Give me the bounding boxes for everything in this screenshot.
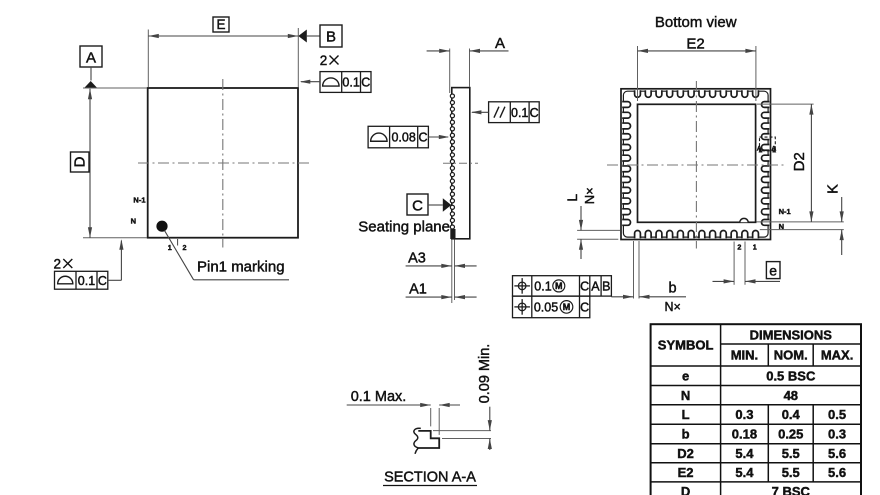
svg-text:C: C bbox=[361, 76, 370, 90]
svg-text:0.3: 0.3 bbox=[735, 407, 753, 422]
svg-text:A: A bbox=[495, 35, 505, 52]
svg-text:C: C bbox=[530, 106, 539, 120]
svg-text:N: N bbox=[681, 388, 690, 403]
svg-text:7 BSC: 7 BSC bbox=[772, 484, 811, 495]
svg-text:Seating plane: Seating plane bbox=[358, 219, 450, 236]
svg-text:0.08: 0.08 bbox=[391, 131, 415, 145]
svg-text:b: b bbox=[682, 427, 690, 442]
svg-text:E: E bbox=[216, 17, 225, 32]
svg-text:A: A bbox=[591, 280, 600, 294]
svg-text:M: M bbox=[555, 281, 563, 291]
svg-text:2: 2 bbox=[737, 242, 741, 251]
svg-text:C: C bbox=[580, 301, 589, 315]
svg-text:B: B bbox=[326, 29, 336, 46]
svg-text:N: N bbox=[131, 217, 136, 226]
svg-text:5.4: 5.4 bbox=[735, 465, 754, 480]
svg-text:N-1: N-1 bbox=[779, 207, 791, 216]
svg-text:DIMENSIONS: DIMENSIONS bbox=[750, 328, 833, 343]
svg-text:N-1: N-1 bbox=[133, 196, 145, 205]
svg-text:A3: A3 bbox=[408, 250, 426, 266]
svg-text:5.4: 5.4 bbox=[735, 446, 754, 461]
svg-text:0.18: 0.18 bbox=[732, 427, 757, 442]
svg-text:Pin1 marking: Pin1 marking bbox=[197, 258, 285, 275]
svg-text:C: C bbox=[98, 274, 107, 288]
svg-text:A: A bbox=[771, 146, 776, 153]
svg-text:A1: A1 bbox=[409, 282, 427, 298]
svg-text:NOM.: NOM. bbox=[774, 348, 808, 363]
svg-text:5.5: 5.5 bbox=[782, 465, 800, 480]
svg-text:SECTION A-A: SECTION A-A bbox=[384, 470, 476, 486]
svg-text:0.05: 0.05 bbox=[534, 301, 558, 315]
svg-text:0.5: 0.5 bbox=[828, 407, 846, 422]
svg-text:2: 2 bbox=[183, 243, 187, 252]
svg-text:A: A bbox=[757, 146, 762, 153]
svg-text:MIN.: MIN. bbox=[731, 348, 758, 363]
svg-text:e: e bbox=[769, 263, 777, 279]
svg-text:K: K bbox=[826, 184, 842, 194]
svg-text:0.1 Max.: 0.1 Max. bbox=[351, 389, 407, 405]
svg-text:0.4: 0.4 bbox=[782, 407, 801, 422]
svg-text:C: C bbox=[419, 131, 428, 145]
svg-text:E2: E2 bbox=[678, 465, 694, 480]
svg-text:C: C bbox=[412, 198, 423, 215]
svg-text:5.5: 5.5 bbox=[782, 446, 800, 461]
svg-text:N×: N× bbox=[582, 187, 597, 204]
svg-text:L: L bbox=[682, 407, 690, 422]
svg-text:0.1: 0.1 bbox=[78, 274, 95, 288]
svg-text:0.1: 0.1 bbox=[342, 76, 359, 90]
svg-text:5.6: 5.6 bbox=[828, 465, 846, 480]
svg-text:0.25: 0.25 bbox=[778, 427, 803, 442]
svg-text:MAX.: MAX. bbox=[821, 348, 854, 363]
svg-text:48: 48 bbox=[784, 388, 798, 403]
svg-text:D2: D2 bbox=[677, 446, 694, 461]
svg-text:Bottom view: Bottom view bbox=[655, 14, 737, 31]
svg-text:2: 2 bbox=[54, 257, 62, 272]
svg-text:e: e bbox=[682, 368, 689, 383]
svg-text:L: L bbox=[564, 194, 580, 202]
svg-text:5.6: 5.6 bbox=[828, 446, 846, 461]
svg-text:2: 2 bbox=[320, 53, 328, 68]
svg-text:N×: N× bbox=[665, 300, 681, 314]
svg-text:SYMBOL: SYMBOL bbox=[658, 338, 714, 353]
svg-text:D: D bbox=[71, 156, 88, 167]
svg-text:0.09 Min.: 0.09 Min. bbox=[477, 344, 493, 404]
svg-text:E2: E2 bbox=[686, 36, 704, 53]
svg-text:b: b bbox=[668, 281, 676, 297]
svg-text:A: A bbox=[86, 50, 96, 67]
svg-text:M: M bbox=[563, 302, 571, 312]
svg-text:0.1: 0.1 bbox=[534, 280, 551, 294]
svg-text:0.3: 0.3 bbox=[828, 427, 846, 442]
svg-text:0.5 BSC: 0.5 BSC bbox=[766, 368, 816, 383]
svg-text:1: 1 bbox=[168, 243, 172, 252]
svg-text:C: C bbox=[580, 280, 589, 294]
svg-text:D2: D2 bbox=[791, 152, 808, 171]
svg-text:D: D bbox=[681, 484, 690, 495]
svg-text:1: 1 bbox=[753, 242, 757, 251]
svg-text:B: B bbox=[602, 280, 610, 294]
svg-text:0.1: 0.1 bbox=[511, 106, 528, 120]
